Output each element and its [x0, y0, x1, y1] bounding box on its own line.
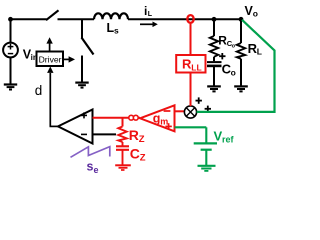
resistor RL [237, 43, 245, 59]
driver top arrow to S1 [49, 43, 51, 52]
resistor Rz [118, 127, 126, 143]
svg-text:L: L [257, 47, 262, 57]
current sense point (red circle on rail) [187, 15, 193, 23]
driver right arrow to S2 [63, 58, 71, 60]
svg-text:Z: Z [140, 153, 146, 164]
switch S1 blade (top-left series switch) [46, 10, 59, 20]
Vin minus sign [8, 53, 13, 55]
svg-text:s: s [87, 160, 94, 174]
inductor Ls coil [94, 13, 128, 19]
ground (Vin) [4, 83, 17, 85]
ground (switch branch) [75, 81, 88, 83]
infinity symbol (infinite gain) [129, 115, 134, 120]
wire Rz branch stem [122, 118, 124, 127]
wire top rail mid segment [58, 18, 95, 20]
comparator (PWM) [58, 110, 93, 144]
ground (Cz, red) [115, 164, 131, 166]
wire RLL to summing node (red) [190, 73, 192, 107]
svg-text:d: d [35, 83, 43, 98]
op-amp gm (error amp, red) [140, 105, 175, 131]
wire gm minus to summing node (red) [175, 110, 186, 112]
capacitor Cz [122, 142, 124, 146]
svg-text:Z: Z [139, 134, 145, 145]
comparator minus [81, 133, 87, 135]
svg-text:C: C [130, 146, 140, 162]
wire sense to RLL (red) [190, 23, 192, 55]
svg-text:LL: LL [191, 63, 201, 73]
summing node X [184, 106, 196, 118]
svg-text:Driver: Driver [39, 54, 62, 64]
wire comparator plus to gm output (red) [93, 117, 141, 119]
svg-text:s: s [114, 26, 119, 36]
wire Co to ground [213, 66, 215, 86]
wire top rail right segment [128, 18, 242, 20]
svg-text:o: o [231, 67, 236, 77]
plus sign upper (iL path) [196, 100, 202, 102]
wire Cz to ground [122, 150, 124, 165]
block RLL (sensing gain) [176, 55, 205, 73]
wire gm plus to Vref (green) [175, 126, 207, 128]
resistor RCo branch wire [213, 19, 215, 36]
driver box U1 [37, 52, 64, 67]
node at RCo branch [212, 17, 217, 22]
wire top rail left segment [11, 18, 47, 20]
wire Vin to ground [10, 57, 12, 84]
resistor RL branch wire [240, 19, 242, 43]
plus sign (Co polarity) [219, 55, 225, 57]
wire switch bottom to ground [81, 56, 83, 83]
iL current arrow [140, 23, 153, 25]
wire from node down to Vin [10, 19, 12, 42]
svg-text:e: e [94, 165, 99, 175]
wire comparator minus input (ramp) [93, 133, 117, 135]
capacitor Co [207, 61, 222, 63]
wire Vref to ground [205, 150, 207, 165]
svg-text:o: o [253, 9, 258, 19]
ground (Co) [207, 85, 221, 87]
ground (RL) [234, 85, 248, 87]
svg-text:ref: ref [222, 135, 235, 145]
svg-text:R: R [129, 127, 139, 143]
wire RL to ground [240, 59, 242, 86]
ground (Vref, green) [198, 165, 216, 167]
wire RCo to Co [213, 57, 215, 61]
feedback wire vo (green): diagonal, vertical, horizontal to summing node [197, 20, 275, 112]
svg-text:L: L [148, 11, 153, 18]
gm plus sign [165, 125, 171, 127]
wire comparator output to d [50, 125, 59, 127]
gm minus sign [164, 110, 171, 112]
source Vin circle [3, 43, 18, 58]
switch S2 blade (vertical sync switch) [82, 38, 94, 55]
node vo [239, 17, 244, 22]
node at top-left corner [8, 17, 13, 22]
comparator plus [81, 114, 87, 116]
resistor RCo [210, 36, 218, 57]
source Vref battery [194, 142, 217, 144]
plus sign right (vo path) [205, 108, 211, 110]
sawtooth ramp se waveform [71, 147, 110, 158]
wire rail T to switch Q2 top [81, 19, 83, 38]
svg-text:m: m [160, 117, 168, 127]
driver bottom input arrow (d) [49, 73, 51, 126]
Vin plus sign [8, 46, 14, 48]
